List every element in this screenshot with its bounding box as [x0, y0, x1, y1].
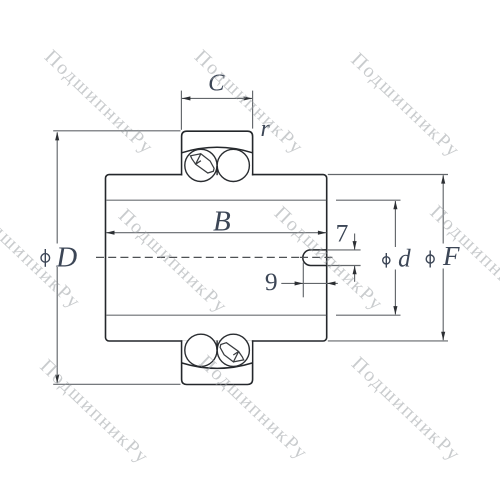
9 extension line — [302, 263, 304, 298]
7 top arrow (points down) — [353, 241, 357, 250]
ball top-right — [217, 149, 249, 181]
svg-text:9: 9 — [265, 267, 278, 296]
d top arrow — [393, 201, 397, 210]
lubrication slot — [303, 250, 327, 266]
F top arrow — [441, 175, 445, 184]
d extension lines — [336, 199, 401, 201]
D dimension line — [56, 132, 58, 243]
7 dimension line — [354, 234, 356, 250]
bore line bottom — [106, 314, 326, 316]
phi symbols — [41, 249, 434, 268]
C extension lines — [180, 91, 182, 130]
centerline — [96, 256, 302, 258]
ball bottom-right — [217, 334, 249, 366]
B left arrow — [106, 231, 115, 235]
svg-text:7: 7 — [336, 219, 349, 248]
7 bottom arrow (points up) — [353, 266, 357, 275]
C right arrow — [244, 96, 253, 100]
C dimension line — [182, 97, 252, 99]
bottom outer ring (180deg rotation of top) — [182, 334, 253, 384]
outer ring spherical raceway arc — [182, 147, 253, 153]
C left arrow — [182, 96, 191, 100]
ball top-left — [185, 149, 217, 181]
B dimension line — [106, 232, 326, 234]
outer ring cavity below raceway — [182, 148, 251, 174]
d bottom arrow — [393, 306, 397, 315]
cage on bottom-right ball — [220, 343, 244, 362]
phi of d — [383, 253, 390, 268]
slot 7 extension lines — [328, 249, 361, 251]
inner ring sleeve — [106, 175, 327, 341]
centerline through slot — [300, 256, 334, 258]
outer ring body (top) — [182, 131, 253, 175]
F extension lines — [328, 174, 448, 176]
inner ring rib between balls (bottom) — [216, 341, 218, 350]
top outer ring — [182, 131, 253, 181]
B right arrow — [318, 231, 327, 235]
sleeve right edge over slot — [326, 249, 328, 266]
svg-text:d: d — [398, 245, 411, 272]
outer ring body (bottom) — [182, 340, 253, 384]
bore line top — [106, 199, 326, 201]
outer ring cavity below raceway (bottom) — [182, 342, 251, 368]
D bottom arrow — [55, 375, 59, 384]
svg-text:D: D — [55, 241, 77, 273]
F dimension line — [442, 175, 444, 243]
phi of F — [426, 251, 434, 268]
svg-text:B: B — [213, 205, 231, 237]
d dimension line — [394, 201, 396, 247]
ball bottom-left — [185, 334, 217, 366]
inner ring rib between balls — [216, 166, 218, 175]
outer ring spherical raceway arc (bottom) — [182, 363, 253, 369]
F bottom arrow — [441, 332, 445, 341]
9 right arrow (points left) — [327, 281, 336, 285]
arrowheads — [55, 96, 445, 383]
D extension lines — [53, 130, 180, 132]
9 left arrow (points right) — [295, 281, 304, 285]
phi of D — [41, 249, 50, 267]
D top arrow — [55, 132, 59, 141]
cage on top-left ball — [191, 154, 215, 173]
9 dimension line — [281, 282, 338, 284]
